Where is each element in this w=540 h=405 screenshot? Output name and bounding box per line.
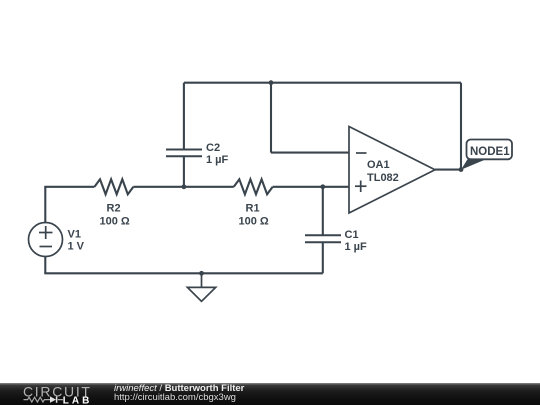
wire bottom ground rail — [44, 272, 323, 274]
node NODE1 flag — [461, 140, 512, 170]
svg-text:TL082: TL082 — [367, 172, 399, 184]
svg-text:LAB: LAB — [63, 395, 93, 405]
svg-text:1 V: 1 V — [68, 240, 85, 252]
svg-text:C2: C2 — [206, 142, 220, 154]
node junction dot (R1/C1) — [320, 184, 325, 189]
node junction dot (output) — [459, 167, 464, 172]
voltage source V1 — [29, 223, 63, 257]
svg-text:R1: R1 — [246, 203, 260, 215]
wire feedback left vertical drop — [270, 83, 272, 153]
footer logo CIRCUIT LAB — [0, 383, 110, 405]
wire main horizontal left segment (V1 to R2) — [44, 186, 94, 188]
svg-text:R2: R2 — [107, 203, 121, 215]
node junction dot (ground rail) — [199, 271, 204, 276]
wire output right vertical — [460, 83, 462, 170]
wire C1 lower vertical — [322, 242, 324, 273]
ground — [187, 273, 215, 301]
svg-text:100 Ω: 100 Ω — [239, 216, 269, 228]
svg-text:100 Ω: 100 Ω — [100, 216, 130, 228]
wire op-amp minus input horizontal — [271, 152, 349, 154]
capacitor C1 — [305, 235, 341, 242]
footer line 1 — [114, 383, 244, 394]
wire op-amp output stub — [435, 169, 461, 171]
wire C2 lower vertical — [183, 156, 185, 187]
svg-text:OA1: OA1 — [367, 159, 390, 171]
svg-text:NODE1: NODE1 — [470, 146, 510, 158]
svg-text:1 µF: 1 µF — [206, 154, 229, 166]
resistor R1 — [234, 179, 273, 194]
wire top feedback horizontal — [184, 82, 461, 84]
node junction dot (R2/C2) — [182, 184, 187, 189]
svg-text:1 µF: 1 µF — [345, 241, 368, 253]
svg-text:C1: C1 — [345, 229, 359, 241]
svg-text:V1: V1 — [68, 228, 81, 240]
resistor R2 — [95, 179, 134, 194]
op-amp OA1 — [349, 127, 435, 214]
wire between R2 and R1 — [133, 186, 233, 188]
node junction dot (feedback top) — [269, 80, 274, 85]
footer bar — [0, 383, 540, 405]
wire C2 upper vertical — [183, 83, 185, 150]
capacitor C2 — [166, 150, 202, 157]
wire V1 top vertical — [44, 187, 46, 223]
wire V1 bottom vertical — [44, 257, 46, 274]
wire C1 upper vertical — [322, 187, 324, 236]
wire R1 to op-amp plus input — [273, 186, 349, 188]
footer line 2 — [114, 392, 236, 403]
